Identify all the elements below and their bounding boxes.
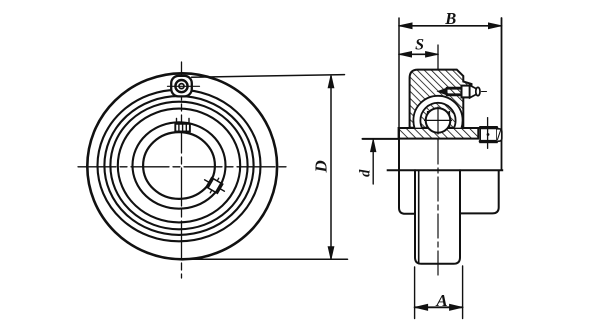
d dimension line with up arrow [372,140,374,184]
svg-text:B: B [444,9,456,28]
dimension line [330,76,332,258]
ball [424,107,452,135]
outer ring land circle [118,109,240,223]
extension line left (B) [398,18,400,128]
spherical seat (white gap ring + arcs) [413,96,462,145]
bore extension line [363,138,400,140]
grease fitting (front view, top) [168,76,200,97]
extension line top [192,75,345,78]
grease fitting (section, right side) [437,85,487,98]
housing cylinder (side view, bottom half) [415,170,460,263]
inner ring OD circle [133,122,226,208]
dimension d [363,139,400,184]
sleeve outline bottom-right [461,170,499,213]
outer ring OD circle [110,102,247,230]
sleeve outline bottom-left [399,128,415,214]
dimension D [176,75,348,260]
housing outer circle (D) [87,73,277,259]
dimension S [399,52,438,57]
housing block (section, hatched) [410,70,472,128]
dimension B [399,18,502,170]
extension line bottom [176,258,348,260]
spherical seat circle [104,96,253,235]
svg-text:S: S [415,36,424,53]
bore circle d [143,132,215,199]
bearing centerline (section) [437,45,439,278]
svg-text:d: d [358,169,374,177]
B dimension line [399,25,502,27]
set screw at 120 deg (front view) [200,172,228,198]
eccentric locking collar [480,118,502,149]
inner ring sleeve bar (section, hatched) [399,128,479,139]
set screw head (top, front view) [175,119,190,132]
horizontal centerline [78,166,290,168]
svg-text:A: A [435,291,447,310]
vertical centerline [181,62,183,278]
sleeve step edge (mid horizontal) [387,169,504,171]
extension line right (B) [501,18,503,170]
housing shoulder circle [98,90,261,242]
dimension A [415,266,463,319]
outer ring side faces [428,111,450,128]
svg-text:D: D [312,160,331,173]
